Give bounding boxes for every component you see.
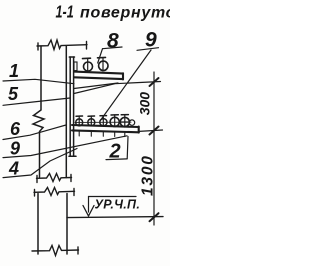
svg-text:8: 8	[107, 30, 119, 53]
tick middle	[150, 127, 159, 135]
dimension line vertical	[153, 72, 155, 225]
leader 2 underline	[106, 158, 127, 161]
leader 9 left	[3, 136, 127, 158]
svg-text:300: 300	[136, 92, 152, 116]
svg-text:4: 4	[8, 159, 19, 179]
column right line upper	[65, 46, 67, 178]
break line 3	[32, 246, 79, 256]
bolt B1 nut circle	[84, 62, 93, 71]
svg-text:5: 5	[8, 84, 19, 104]
level flag shelf	[89, 196, 137, 198]
svg-text:1-1: 1-1	[56, 3, 74, 23]
bolt B2 shank	[102, 58, 104, 71]
gusset upper edge	[74, 83, 118, 89]
svg-text:УР.Ч.П.: УР.Ч.П.	[95, 198, 141, 212]
extension line to middle tick	[139, 130, 163, 131]
level flag pole	[88, 197, 90, 213]
bolt L4	[110, 115, 119, 127]
plate on column face	[69, 57, 76, 156]
tick top	[150, 78, 159, 86]
tick bottom	[150, 213, 159, 221]
lower bracket bar	[72, 125, 139, 133]
leader 1	[3, 79, 74, 83]
column left line upper	[33, 46, 44, 177]
leader 4	[3, 149, 77, 178]
break line 2	[34, 188, 75, 197]
top bracket clip tab	[74, 62, 77, 71]
svg-text:6: 6	[10, 119, 21, 139]
bolt L5 with cross	[120, 115, 129, 127]
bolt L1	[76, 116, 83, 126]
break line 1	[37, 174, 72, 183]
column left line lower	[37, 194, 39, 255]
top break line	[37, 40, 87, 50]
leader 9 top (to lower bolt washer)	[100, 50, 151, 121]
leader 8 underline	[103, 47, 123, 49]
bolt B1 shank	[87, 59, 89, 72]
leader 2 vertical	[126, 137, 129, 159]
leader 5	[3, 98, 70, 105]
bolt B1 head	[83, 57, 91, 59]
leader 6	[3, 125, 66, 140]
column right line lower	[66, 194, 68, 255]
extension line to top tick	[74, 82, 161, 94]
bolt L6 small	[129, 120, 134, 125]
bolt L2	[88, 116, 95, 126]
floor level line	[67, 217, 163, 218]
level flag arrowhead	[83, 206, 94, 217]
bolt B2 head	[98, 56, 106, 58]
leader 8	[98, 49, 103, 63]
svg-text:повернуто: повернуто	[80, 5, 170, 22]
top bracket bar	[74, 72, 123, 80]
leader 9 top underline	[137, 48, 159, 51]
title 1-1 повернуто	[56, 3, 177, 23]
svg-text:1: 1	[9, 61, 19, 81]
bolt shanks below bar	[79, 131, 125, 136]
bolt L3	[100, 116, 107, 126]
bolt B2 nut circle	[99, 61, 108, 70]
washer strip line	[75, 121, 131, 123]
svg-text:1300: 1300	[139, 154, 156, 196]
svg-text:9: 9	[10, 139, 20, 159]
